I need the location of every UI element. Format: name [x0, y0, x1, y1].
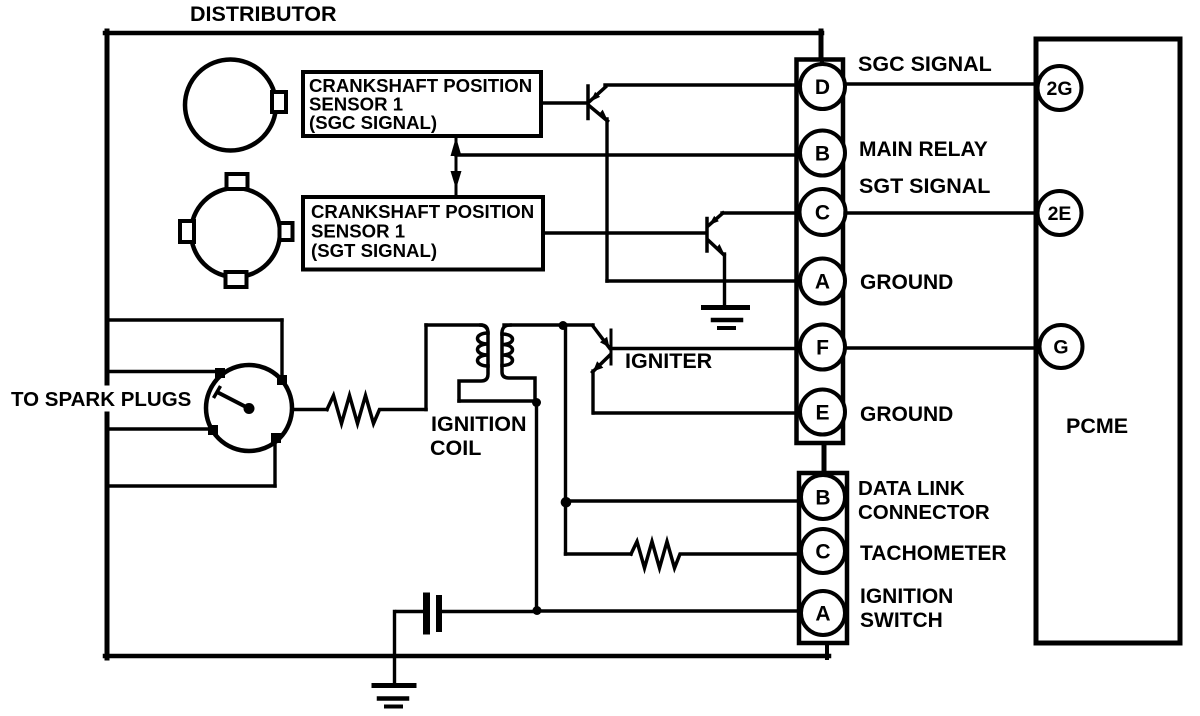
svg-text:CRANKSHAFT POSITION: CRANKSHAFT POSITION [311, 201, 534, 222]
svg-text:TACHOMETER: TACHOMETER [860, 542, 1007, 565]
svg-text:SWITCH: SWITCH [860, 609, 943, 632]
svg-text:A: A [815, 603, 830, 626]
svg-text:(SGC SIGNAL): (SGC SIGNAL) [309, 112, 437, 133]
svg-text:DISTRIBUTOR: DISTRIBUTOR [190, 2, 337, 26]
svg-text:A: A [815, 271, 830, 294]
svg-text:2G: 2G [1046, 78, 1072, 100]
svg-text:IGNITER: IGNITER [625, 349, 713, 373]
svg-text:C: C [815, 541, 830, 564]
svg-text:(SGT SIGNAL): (SGT SIGNAL) [311, 240, 437, 261]
svg-text:MAIN RELAY: MAIN RELAY [859, 138, 988, 161]
svg-text:G: G [1053, 337, 1068, 359]
svg-text:IGNITION: IGNITION [431, 412, 527, 436]
svg-text:GROUND: GROUND [860, 271, 953, 294]
svg-text:SGC SIGNAL: SGC SIGNAL [858, 52, 992, 76]
svg-text:TO SPARK PLUGS: TO SPARK PLUGS [11, 388, 191, 411]
svg-text:D: D [815, 76, 830, 99]
svg-text:E: E [815, 402, 829, 425]
svg-text:B: B [815, 143, 830, 166]
svg-text:CONNECTOR: CONNECTOR [858, 501, 990, 524]
svg-text:PCME: PCME [1066, 414, 1128, 438]
svg-text:IGNITION: IGNITION [860, 585, 953, 608]
svg-text:SGT SIGNAL: SGT SIGNAL [859, 174, 990, 198]
svg-text:COIL: COIL [430, 436, 481, 460]
svg-text:DATA LINK: DATA LINK [858, 477, 965, 500]
svg-text:C: C [815, 202, 830, 225]
svg-text:F: F [816, 337, 829, 360]
svg-text:SENSOR 1: SENSOR 1 [311, 221, 405, 242]
svg-text:GROUND: GROUND [860, 403, 953, 426]
svg-text:2E: 2E [1048, 203, 1072, 225]
svg-text:B: B [815, 487, 830, 510]
